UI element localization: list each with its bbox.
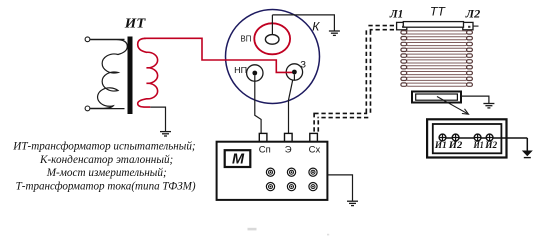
svg-text:НП: НП [234,66,247,75]
svg-text:Л1: Л1 [389,8,403,20]
svg-text:И2: И2 [448,140,463,150]
svg-text:К: К [312,19,320,33]
svg-text:Э: Э [285,145,292,156]
svg-text:Т-трансформатор тока(типа ТФЗМ: Т-трансформатор тока(типа ТФЗМ) [16,180,196,192]
svg-text:ИТ: ИТ [124,17,147,32]
svg-text:Л2: Л2 [465,8,481,20]
svg-text:И2: И2 [484,140,497,150]
svg-text:Сп: Сп [259,145,271,156]
svg-text:ИТ-трансформатор испытательный: ИТ-трансформатор испытательный; [12,140,195,153]
svg-text:И1: И1 [434,140,447,150]
svg-text:Сх: Сх [309,145,321,156]
svg-text:И1: И1 [473,140,484,150]
svg-text:М: М [232,151,245,167]
svg-text:ВП: ВП [241,34,252,43]
svg-text:М-мост измерительный;: М-мост измерительный; [46,166,167,179]
svg-text:К-конденсатор эталонный;: К-конденсатор эталонный; [39,153,173,166]
svg-text:ТТ: ТТ [430,5,447,19]
